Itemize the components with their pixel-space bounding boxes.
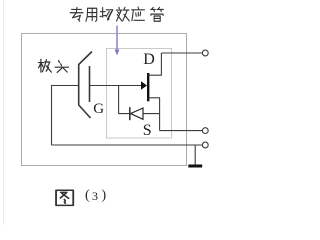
- terminal: drain output: [202, 50, 208, 56]
- JFET Q1 source lead: [149, 98, 160, 131]
- terminal: source output: [202, 128, 208, 134]
- label: 专用场效应管 (special-purpose FET), hand-drawn glyphs: [70, 7, 163, 21]
- diode D1 anode triangle: [131, 108, 143, 119]
- label: 极头 (capsule), hand-drawn glyphs: [39, 59, 69, 72]
- wire: diode anode to source node: [143, 113, 160, 115]
- svg-text:(: (: [85, 188, 90, 203]
- FET enclosure box U1: [107, 49, 172, 139]
- wire: drain to top terminal: [161, 52, 202, 54]
- svg-text:S: S: [143, 122, 152, 139]
- terminal: ground reference: [202, 142, 208, 148]
- svg-text:G: G: [93, 101, 104, 117]
- wire: gate (back plate to JFET gate): [90, 85, 143, 87]
- page left edge artifact line: [3, 0, 5, 225]
- JFET Q1 drain lead: [149, 53, 162, 75]
- ground symbol: [188, 165, 202, 168]
- leader arrow from label to FET box: [116, 26, 118, 52]
- leader arrowhead: [115, 50, 120, 56]
- svg-text:D: D: [143, 51, 155, 68]
- JFET Q1 gate arrow: [141, 81, 147, 90]
- wire: rail drop to ground: [194, 145, 196, 165]
- wire: gate to diode branch drop: [119, 86, 130, 114]
- JFET Q1 channel bar: [147, 73, 149, 101]
- wire: source node to output terminal: [160, 130, 203, 132]
- caption: 图 (figure) hand-drawn glyph: [56, 190, 73, 205]
- electret capsule diaphragm plate (curved electrode): [79, 52, 92, 119]
- svg-text:3: 3: [92, 189, 98, 203]
- svg-text:): ): [102, 188, 107, 203]
- electret capsule back plate: [89, 66, 91, 102]
- wire: left plate to bottom rail (left drop): [52, 86, 79, 146]
- diode D1 cathode bar: [129, 107, 131, 120]
- wire: bottom rail: [52, 144, 203, 146]
- outer box (microphone body outline): [22, 34, 187, 166]
